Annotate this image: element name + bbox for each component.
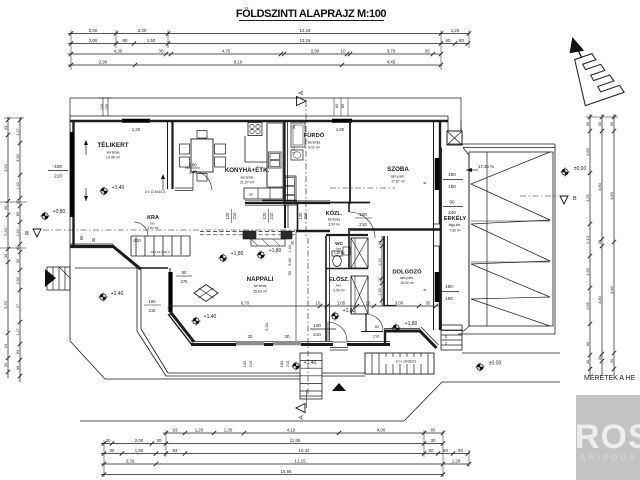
chair right 1	[215, 144, 226, 154]
svg-text:11,55: 11,55	[290, 438, 301, 443]
svg-text:30: 30	[3, 362, 8, 367]
svg-text:30: 30	[291, 241, 295, 245]
svg-text:30: 30	[159, 48, 164, 53]
svg-text:60: 60	[335, 104, 339, 108]
svg-text:3,50: 3,50	[16, 154, 20, 161]
section line B-B left	[43, 229, 296, 231]
svg-text:KÖZL.: KÖZL.	[326, 210, 343, 217]
svg-text:30: 30	[248, 334, 253, 339]
svg-text:50: 50	[288, 271, 292, 275]
level marker +1,40 nappali	[193, 318, 199, 324]
pillar étkező/nappali 1	[243, 231, 256, 239]
logo grey box	[576, 395, 640, 480]
svg-text:180: 180	[445, 284, 453, 289]
kitchen sink	[269, 152, 282, 168]
bottom dim row 5 (15,65)	[101, 474, 443, 476]
chair bottom	[197, 174, 207, 182]
kitchen tall units (fridge etc)	[284, 176, 296, 205]
ramp bottom edge	[458, 333, 555, 335]
svg-text:ker.: ker.	[150, 222, 155, 226]
svg-text:2 x 12,5x19,3: 2 x 12,5x19,3	[145, 190, 165, 194]
wall: wc top	[326, 234, 368, 236]
wall: nappali bottom left segment	[191, 343, 236, 346]
svg-text:30: 30	[106, 438, 111, 443]
svg-text:1,20: 1,20	[16, 229, 20, 236]
right dim chain 2	[601, 114, 603, 376]
svg-text:90: 90	[79, 235, 84, 240]
wall: közl left (corridor)	[297, 202, 299, 232]
svg-text:15,65: 15,65	[281, 469, 293, 474]
svg-text:5,50 m²: 5,50 m²	[333, 289, 345, 293]
svg-text:12,15: 12,15	[295, 458, 307, 463]
wall: konyha bottom counter line	[262, 200, 297, 202]
svg-text:30: 30	[609, 358, 614, 363]
terrace inner edge 2	[140, 267, 142, 329]
svg-text:60: 60	[446, 38, 451, 43]
svg-text:10: 10	[366, 300, 371, 305]
svg-text:2,64 m²: 2,64 m²	[147, 226, 159, 230]
door elősz-dolgozó (arc + 80/210)	[365, 313, 367, 331]
svg-text:2,30: 2,30	[3, 227, 8, 236]
bottom dim row 4 (2,30 12,15 1,20)	[101, 463, 469, 465]
svg-text:ANIRODA: ANIRODA	[580, 453, 637, 462]
svg-text:1,20: 1,20	[451, 28, 460, 33]
svg-text:3,30: 3,30	[264, 322, 269, 331]
svg-text:100: 100	[279, 360, 284, 367]
terrace outer edge	[69, 248, 71, 341]
left chains ext line low	[0, 247, 26, 249]
svg-text:9,10: 9,10	[234, 59, 243, 64]
window top wall 1,30 (télikert)	[122, 119, 150, 123]
svg-text:1,30: 1,30	[132, 127, 141, 132]
wall: szoba bottom	[350, 228, 440, 231]
svg-text:4,75: 4,75	[222, 48, 231, 53]
svg-text:SZOBA: SZOBA	[387, 166, 409, 173]
télikert arrow up	[85, 142, 87, 155]
svg-text:+1,40: +1,40	[204, 314, 217, 320]
svg-text:fagy.ker.: fagy.ker.	[449, 223, 462, 227]
svg-text:30: 30	[585, 121, 590, 126]
télikert arrow down	[85, 188, 87, 201]
svg-text:1,20: 1,20	[452, 458, 461, 463]
wall: bay horizontal	[139, 267, 168, 269]
interior dim row (6,70 10 1,05 10 3,00 30)	[170, 305, 441, 307]
ramp mid vertical	[486, 152, 488, 326]
svg-text:150: 150	[448, 184, 456, 189]
svg-text:6,70: 6,70	[241, 300, 250, 305]
level marker +1,80 dolgozó	[393, 325, 399, 331]
svg-text:10 x 19,1/26,3: 10 x 19,1/26,3	[150, 250, 169, 254]
right dim chain 1	[589, 114, 591, 376]
svg-text:kerámia: kerámia	[107, 151, 120, 155]
chair right 2	[215, 157, 226, 167]
kitchen lower counter with H	[244, 188, 283, 199]
entrance marker triangle	[332, 383, 346, 391]
site kerb diagonal	[404, 382, 442, 421]
wall: konyha/fürdő (hatched strip)	[283, 121, 285, 204]
svg-text:+1,80: +1,80	[231, 251, 244, 257]
door arc közl-dolgozó	[349, 212, 375, 238]
entrance door gap	[333, 341, 347, 343]
site wall line right	[462, 352, 560, 354]
svg-text:KONYHA+ÉTK.: KONYHA+ÉTK.	[225, 166, 270, 174]
svg-text:ELŐSZ.: ELŐSZ.	[329, 276, 350, 283]
svg-text:8: 8	[422, 288, 427, 291]
wall: top exterior (inner thick)	[70, 120, 448, 123]
svg-text:ker.: ker.	[336, 284, 342, 288]
svg-text:10: 10	[378, 278, 382, 282]
svg-text:8: 8	[422, 181, 427, 184]
svg-text:FÜRDŐ: FÜRDŐ	[304, 132, 325, 139]
ramp left edge	[468, 155, 470, 326]
svg-text:1,35: 1,35	[585, 267, 590, 276]
svg-text:210: 210	[269, 212, 274, 220]
svg-text:2,30: 2,30	[126, 458, 135, 463]
svg-text:FÖLDSZINTI ALAPRAJZ M:100: FÖLDSZINTI ALAPRAJZ M:100	[236, 7, 387, 20]
svg-text:240: 240	[448, 210, 456, 215]
svg-text:1,50: 1,50	[135, 448, 144, 453]
svg-text:A: A	[298, 415, 305, 420]
svg-text:19,46 m²: 19,46 m²	[106, 156, 121, 160]
svg-text:4,45: 4,45	[387, 59, 396, 64]
svg-text:1,50: 1,50	[147, 38, 156, 43]
svg-text:210: 210	[373, 335, 379, 339]
svg-text:35,93 m²: 35,93 m²	[253, 290, 268, 294]
svg-text:2,00: 2,00	[89, 28, 98, 33]
svg-text:27: 27	[16, 304, 20, 308]
svg-text:12,15: 12,15	[300, 38, 312, 43]
svg-text:3,70: 3,70	[387, 48, 396, 53]
opening dashed lintel lines	[200, 231, 296, 233]
left dim chain outer	[7, 117, 9, 378]
svg-text:30: 30	[597, 355, 602, 360]
window nappali bottom 1	[236, 342, 264, 344]
svg-text:4,80: 4,80	[597, 295, 602, 304]
svg-text:4,80: 4,80	[597, 182, 602, 191]
chair left 2	[180, 157, 190, 167]
svg-text:100: 100	[313, 323, 321, 328]
svg-text:2,00: 2,00	[89, 38, 98, 43]
small stair left of entrance	[300, 353, 322, 399]
svg-text:30: 30	[425, 48, 430, 53]
svg-text:30: 30	[291, 124, 296, 129]
svg-text:93: 93	[173, 448, 178, 453]
left chains ext line mid	[0, 201, 27, 203]
level marker +0,80 terrace	[42, 213, 48, 219]
svg-text:±0,00: ±0,00	[574, 166, 587, 172]
level marker ±0,00 bottom	[477, 364, 483, 370]
svg-text:1,35: 1,35	[585, 193, 590, 202]
svg-text:17,36 %: 17,36 %	[478, 164, 494, 169]
svg-text:2,31: 2,31	[291, 145, 296, 154]
vdim chimney 120/150	[102, 98, 104, 116]
section line B-B mid	[330, 187, 395, 189]
dining table	[191, 139, 213, 172]
window nappali bottom 2	[273, 342, 301, 344]
svg-text:210: 210	[232, 212, 237, 220]
chimney shaft top-right (crossed)	[447, 131, 462, 145]
wall: top exterior (outer face)	[70, 115, 448, 117]
svg-text:1,60: 1,60	[16, 277, 20, 284]
low wall nappali north	[251, 239, 285, 246]
svg-text:90: 90	[449, 200, 455, 205]
svg-text:10,42: 10,42	[299, 448, 311, 453]
svg-text:30: 30	[609, 121, 614, 126]
washbasin fürdő	[291, 150, 303, 160]
svg-text:30: 30	[585, 359, 590, 364]
svg-text:200: 200	[133, 238, 141, 243]
shaft hatched 2 (elősz)	[351, 276, 368, 314]
svg-text:100: 100	[149, 299, 157, 304]
svg-text:1,40: 1,40	[378, 258, 382, 265]
svg-text:2,47: 2,47	[16, 128, 20, 135]
svg-text:kerámia: kerámia	[308, 141, 321, 145]
svg-text:1,30: 1,30	[224, 427, 233, 432]
svg-text:1,95: 1,95	[378, 288, 382, 295]
svg-text:9,60: 9,60	[288, 258, 292, 265]
svg-text:150: 150	[445, 296, 453, 301]
window szoba right 180/150	[435, 158, 440, 190]
wc washbasin	[343, 247, 350, 255]
chair left 1	[180, 144, 190, 154]
svg-text:215: 215	[285, 360, 290, 367]
side stair right (erkély down)	[441, 325, 462, 350]
svg-text:30: 30	[3, 125, 8, 130]
wall: közl right + door	[348, 202, 350, 212]
svg-text:93: 93	[173, 427, 178, 432]
svg-text:2,30: 2,30	[138, 28, 147, 33]
svg-text:kerámia: kerámia	[241, 176, 254, 180]
svg-text:80: 80	[16, 212, 20, 216]
top dims extension lines	[70, 30, 72, 70]
svg-text:2,90: 2,90	[311, 48, 320, 53]
svg-text:B: B	[573, 196, 577, 202]
svg-text:80: 80	[375, 325, 379, 329]
svg-text:2,90: 2,90	[99, 59, 108, 64]
svg-text:+1,40: +1,40	[112, 185, 125, 191]
window dolgozó right 180/150	[435, 272, 440, 302]
level marker +1,40 entrance	[293, 363, 299, 369]
wall: fürdő/szoba	[349, 121, 351, 204]
wall: dolgozó left	[383, 236, 385, 306]
svg-text:ERKÉLY: ERKÉLY	[444, 214, 466, 222]
bottom dims extension	[103, 440, 105, 477]
section line A-A	[305, 101, 307, 238]
svg-text:2,05: 2,05	[585, 301, 590, 310]
svg-text:30: 30	[16, 259, 20, 263]
wall: left exterior télikert	[69, 116, 71, 248]
svg-text:+0,80: +0,80	[53, 209, 66, 215]
svg-text:10: 10	[316, 300, 321, 305]
svg-text:80: 80	[431, 427, 436, 432]
erkély east wall	[440, 148, 442, 331]
site kerb line right	[442, 381, 560, 383]
top dimension row 2 (2,00 80 1,50 12,15 60 60)	[68, 43, 468, 45]
svg-text:60: 60	[443, 448, 448, 453]
wall: bay diagonal lower	[168, 314, 192, 345]
bottom dim row 1 (93 1,20 1,30 4,19 4,00 80)	[163, 432, 443, 434]
svg-text:30: 30	[378, 241, 382, 245]
roof overhang right drop	[460, 98, 462, 131]
svg-text:60: 60	[459, 38, 464, 43]
étkező step edge	[175, 187, 193, 189]
left dim chain inner	[19, 117, 21, 382]
svg-text:60: 60	[458, 448, 463, 453]
svg-text:+1,80: +1,80	[405, 321, 418, 327]
svg-text:10 x 16/36/31: 10 x 16/36/31	[396, 360, 417, 364]
svg-text:ROSI: ROSI	[575, 418, 640, 456]
wall: közl bottom	[296, 230, 330, 233]
window glazing left wall	[70, 132, 74, 217]
wall: dolgozó bottom interior	[384, 305, 396, 307]
ramp outline	[469, 152, 553, 326]
svg-text:B: B	[25, 231, 29, 237]
svg-text:1,80: 1,80	[336, 127, 345, 132]
svg-text:120: 120	[100, 104, 104, 110]
wall: dolgozó bottom	[384, 330, 420, 333]
wall: télikert bottom	[70, 245, 113, 248]
svg-text:4,80: 4,80	[609, 191, 614, 200]
svg-text:17,87 m²: 17,87 m²	[391, 180, 406, 184]
top dimension row 1 (2,00 2,30 12,15 1,20)	[68, 33, 469, 35]
svg-text:90: 90	[585, 341, 590, 346]
left chains top tie	[4, 117, 24, 119]
svg-text:30: 30	[157, 438, 162, 443]
svg-text:NAPPALI: NAPPALI	[247, 276, 274, 283]
level marker +1,80 nappali 1	[220, 255, 226, 261]
svg-text:4,00: 4,00	[377, 427, 386, 432]
level marker +1,40 télikert	[101, 188, 107, 194]
svg-text:kerámia: kerámia	[328, 218, 340, 222]
kitchen hob (4 circles)	[248, 123, 262, 136]
terrace chamfer top	[463, 148, 469, 156]
svg-text:150: 150	[105, 104, 109, 110]
svg-text:120: 120	[225, 212, 230, 220]
svg-text:30: 30	[3, 205, 8, 210]
wall: télikert right	[167, 121, 169, 189]
svg-text:60: 60	[341, 104, 345, 108]
svg-text:A: A	[298, 90, 305, 95]
wall: wc bottom	[326, 268, 368, 270]
svg-text:4,30: 4,30	[114, 48, 123, 53]
north arrow (É glyph with arrowhead)	[563, 28, 624, 106]
shaft hatched 1 (wc)	[351, 238, 368, 268]
svg-text:30: 30	[431, 438, 436, 443]
svg-text:DOLGOZÓ: DOLGOZÓ	[392, 268, 422, 276]
terrace east top edge	[448, 143, 555, 145]
svg-text:30: 30	[597, 121, 602, 126]
right dim chain 3	[613, 114, 615, 376]
svg-text:1,33: 1,33	[16, 182, 20, 189]
ramp zigzag	[471, 152, 550, 326]
wall: wc/elősz left	[325, 236, 327, 341]
svg-text:275: 275	[181, 279, 189, 284]
svg-text:21,97 m²: 21,97 m²	[240, 181, 255, 185]
door arc étkező-bay	[193, 171, 212, 190]
roof overhang line top	[70, 97, 461, 99]
svg-text:7,86 m²: 7,86 m²	[449, 229, 461, 233]
svg-text:MÉRETEK A HE: MÉRETEK A HE	[584, 373, 636, 382]
svg-text:2,00: 2,00	[135, 438, 144, 443]
terrace side steps	[47, 267, 70, 290]
svg-text:93: 93	[16, 350, 20, 354]
terrace inner edge 1	[136, 267, 138, 331]
level marker ±0,00 right	[562, 169, 568, 175]
svg-text:180: 180	[448, 172, 456, 177]
svg-text:4,19: 4,19	[287, 427, 296, 432]
svg-text:10: 10	[341, 48, 346, 53]
window top wall 1,80 (fürdő)	[332, 119, 352, 123]
svg-text:1,20: 1,20	[195, 427, 204, 432]
svg-text:30: 30	[16, 366, 20, 370]
svg-text:+1,80: +1,80	[343, 308, 356, 314]
interior vdim dolgozó wall	[381, 236, 383, 306]
terrace east right edge	[554, 144, 556, 334]
svg-text:1,40: 1,40	[288, 245, 292, 252]
window wall west of nappali (hatched)	[169, 268, 171, 315]
chair top	[197, 131, 207, 139]
winder stair treads	[135, 237, 137, 256]
svg-text:12,15: 12,15	[300, 28, 312, 33]
svg-text:11 x 15: 11 x 15	[444, 335, 448, 345]
svg-text:2,10: 2,10	[585, 235, 590, 244]
svg-text:30: 30	[3, 253, 8, 258]
door arc kra	[134, 222, 148, 236]
svg-text:3,90 m²: 3,90 m²	[328, 223, 340, 227]
svg-text:3,50: 3,50	[3, 163, 8, 172]
overhang connector left	[69, 98, 71, 116]
svg-text:210: 210	[54, 174, 62, 180]
level marker +1,80 elősz	[332, 313, 338, 319]
svg-text:93: 93	[3, 343, 8, 348]
wall: right exterior	[433, 121, 435, 330]
site kerb line bottom	[80, 420, 404, 422]
svg-text:TÉLIKERT: TÉLIKERT	[97, 140, 128, 149]
svg-text:30: 30	[426, 300, 431, 305]
svg-text:80: 80	[182, 270, 187, 275]
svg-text:15,30 m²: 15,30 m²	[400, 281, 415, 285]
svg-text:+1,80: +1,80	[269, 248, 282, 254]
svg-text:KRA: KRA	[147, 215, 159, 221]
svg-text:400: 400	[54, 164, 62, 170]
svg-text:3,50: 3,50	[3, 300, 8, 309]
svg-text:120: 120	[262, 212, 267, 220]
wall: bay diagonal (télikert corner to kamra)	[112, 246, 141, 270]
outdoor stair main	[365, 353, 434, 374]
svg-text:100: 100	[242, 360, 247, 367]
wall: fürdő bottom / közl top	[287, 202, 370, 204]
svg-text:215: 215	[248, 360, 253, 367]
bottom dim row 3 (80 1,50 93 10,42 80 60 60)	[101, 453, 468, 455]
svg-text:kerámia: kerámia	[254, 284, 267, 288]
svg-text:80: 80	[123, 38, 128, 43]
wc toilet	[333, 256, 342, 267]
wall: bottom elősz to dolgozó	[347, 343, 390, 346]
wall: nappali east	[295, 232, 297, 341]
wall: nappali bottom mid	[264, 343, 273, 346]
wall konyha south hatched	[245, 202, 330, 204]
kitchen counter L outline	[244, 136, 246, 162]
top dimension row 4 (2,90 9,10 4,45)	[68, 64, 441, 66]
svg-text:lam.park.: lam.park.	[391, 175, 405, 179]
entrance door sill	[330, 347, 348, 349]
svg-text:4,80: 4,80	[609, 285, 614, 294]
svg-text:100: 100	[359, 212, 367, 217]
bath tub	[291, 123, 305, 147]
svg-text:80: 80	[110, 448, 115, 453]
svg-text:±0,00: ±0,00	[489, 361, 502, 367]
svg-text:H: H	[249, 192, 252, 197]
